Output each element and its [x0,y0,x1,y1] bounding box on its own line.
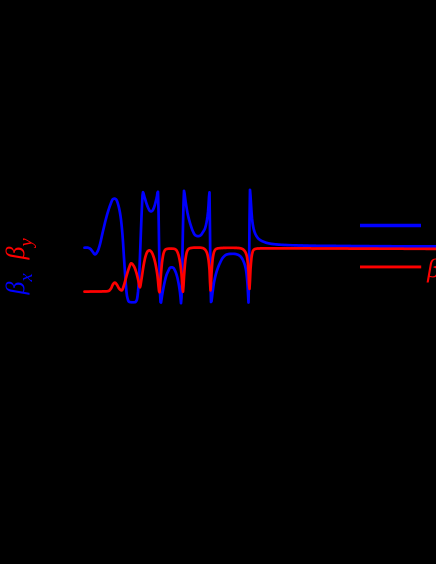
legend line beta_y (red) [360,265,421,268]
curve beta_y (red) [85,248,436,293]
legend line beta_x (blue) [360,224,421,228]
curve beta_x (blue) [85,190,436,303]
